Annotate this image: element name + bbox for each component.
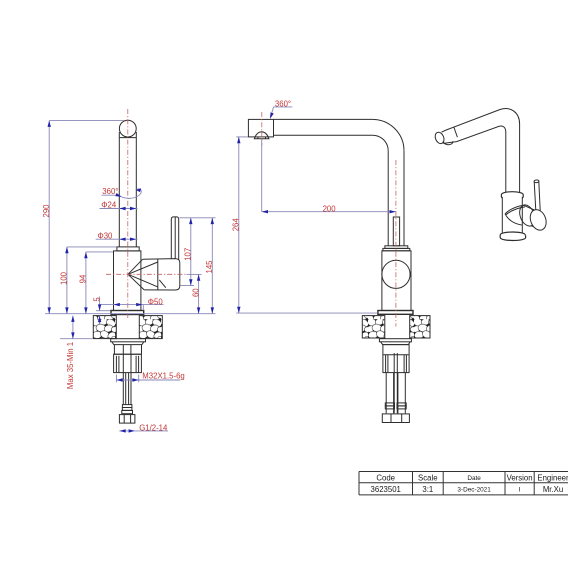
arrows 94 xyxy=(84,252,87,258)
3d body cylinder xyxy=(502,197,522,235)
faucet body cylinder xyxy=(114,251,141,311)
arrows 200 xyxy=(262,210,268,213)
handle lever rod (side view) xyxy=(171,217,178,260)
svg-text:Date: Date xyxy=(467,475,481,482)
handle lever (front view) xyxy=(393,217,399,246)
spout head box xyxy=(248,119,273,138)
base flange xyxy=(111,311,144,315)
left view centerlines xyxy=(106,109,187,319)
svg-text:M32X1.5-6g: M32X1.5-6g xyxy=(142,372,184,381)
svg-text:107: 107 xyxy=(184,248,193,261)
down tube xyxy=(388,151,404,246)
arrows 100 xyxy=(65,247,68,253)
svg-text:I: I xyxy=(519,486,521,493)
arrows max35 xyxy=(71,316,74,322)
base flange (front view) xyxy=(378,311,413,315)
washer chamfer xyxy=(112,342,144,345)
3d base flange xyxy=(500,232,525,241)
spout pipe (side view) xyxy=(119,132,136,247)
horizontal spout tube xyxy=(274,119,373,135)
hex nuts (front view) xyxy=(382,414,409,423)
body cylinder (front view) xyxy=(382,251,411,311)
arrow 5 xyxy=(98,304,101,310)
arrows 107 xyxy=(189,218,192,224)
svg-text:145: 145 xyxy=(205,260,214,274)
dim max35 line xyxy=(60,316,93,339)
beak cone xyxy=(505,205,523,214)
arrows phi50 xyxy=(114,303,120,306)
svg-text:360°: 360° xyxy=(275,100,291,109)
svg-text:Max 35-Min 1: Max 35-Min 1 xyxy=(66,342,75,389)
body collar (front view) xyxy=(383,246,410,251)
tangent bottom xyxy=(531,226,542,230)
dim 145 line xyxy=(211,218,213,314)
tangent top xyxy=(523,205,534,210)
supply tubes (front view) xyxy=(386,353,405,413)
3d spout tube outline xyxy=(442,109,520,193)
horizontal centerline (left view) xyxy=(106,273,187,275)
dim 5 line xyxy=(96,297,110,324)
svg-text:3-Dec-2021: 3-Dec-2021 xyxy=(457,486,491,493)
valve cone to handle xyxy=(128,259,158,290)
arrows phi30 xyxy=(119,238,125,241)
supply tube (side view) xyxy=(123,373,131,405)
mounting washer plate xyxy=(111,339,146,342)
3d body collar xyxy=(501,192,523,200)
washer chamfer (front view) xyxy=(381,342,411,345)
washer plate (front view) xyxy=(379,339,411,342)
mounting nut M32 xyxy=(114,354,142,372)
360 rotation arc (left view) xyxy=(102,189,142,198)
tube rings (front view) xyxy=(385,403,406,409)
body centerline (front view) xyxy=(395,160,397,327)
svg-text:5: 5 xyxy=(92,297,101,302)
spout elbow xyxy=(373,119,404,150)
arrow 360 leader (front view) xyxy=(268,112,273,119)
svg-text:60: 60 xyxy=(191,288,200,297)
dim M32 line xyxy=(116,375,180,383)
dim phi50 line xyxy=(100,305,164,311)
valve cap circle xyxy=(382,260,410,288)
arrows 290 xyxy=(48,121,51,127)
dim 264 line xyxy=(236,137,377,313)
svg-text:G1/2-14: G1/2-14 xyxy=(139,424,168,433)
dim phi30 line xyxy=(96,238,138,240)
svg-text:Φ50: Φ50 xyxy=(148,297,164,306)
dim G1/2 line xyxy=(119,430,168,432)
dim 60 line xyxy=(198,274,200,313)
hex nut G1/2 xyxy=(119,415,134,424)
svg-text:Mr.Xu: Mr.Xu xyxy=(543,485,563,494)
svg-text:Scale: Scale xyxy=(418,473,438,482)
svg-text:Code: Code xyxy=(376,473,395,482)
dim phi24 line xyxy=(100,208,138,210)
svg-text:3:1: 3:1 xyxy=(422,485,433,494)
svg-text:290: 290 xyxy=(42,204,51,218)
vertical centerline (left view) xyxy=(127,109,129,319)
svg-text:200: 200 xyxy=(323,204,337,213)
arrows M32 xyxy=(116,378,122,381)
spout top cap circle xyxy=(119,120,136,137)
dim 100 line xyxy=(67,247,116,314)
countertop hatch left block (side view) xyxy=(93,316,162,339)
dim 200 line xyxy=(262,140,396,212)
3d spout tip cap xyxy=(434,127,458,145)
svg-text:94: 94 xyxy=(79,274,88,283)
arrows G1/2 xyxy=(119,429,125,432)
svg-text:Φ24: Φ24 xyxy=(101,201,117,210)
end cap ellipse xyxy=(527,207,549,232)
svg-text:100: 100 xyxy=(60,271,69,285)
shank upper section xyxy=(114,345,142,355)
countertop extension line xyxy=(45,313,216,315)
mounting nut (front view) xyxy=(383,345,409,373)
arrows 60 xyxy=(197,274,200,280)
arrow 360 leader (left view) xyxy=(115,193,122,199)
svg-text:264: 264 xyxy=(232,218,241,232)
svg-text:Version: Version xyxy=(507,473,533,482)
handle cap (side view) xyxy=(143,259,180,290)
svg-text:360°: 360° xyxy=(102,187,118,196)
dim 107 line xyxy=(180,218,216,286)
svg-text:Φ30: Φ30 xyxy=(98,231,114,240)
3d handle rod xyxy=(534,180,540,211)
arrows phi24 xyxy=(119,207,125,210)
360 leader (front view) xyxy=(270,107,292,118)
dim 290 line xyxy=(49,121,124,314)
middle view centerlines xyxy=(262,112,396,327)
3d valve cylinder and cone xyxy=(505,203,549,233)
svg-text:3623501: 3623501 xyxy=(371,485,401,494)
countertop hatch outlines xyxy=(93,316,162,339)
arrow 360 arc tip xyxy=(136,188,141,192)
arrows 145 xyxy=(211,218,214,224)
valve cylinder rim ellipse xyxy=(517,203,538,229)
dim 94 line xyxy=(86,252,113,314)
countertop hatch (front view) xyxy=(362,316,430,338)
arrows 264 xyxy=(237,137,240,143)
svg-text:Engineer: Engineer xyxy=(537,473,568,482)
body collar xyxy=(117,247,139,251)
spout head centerline xyxy=(261,112,263,146)
tube end rings xyxy=(122,405,133,414)
